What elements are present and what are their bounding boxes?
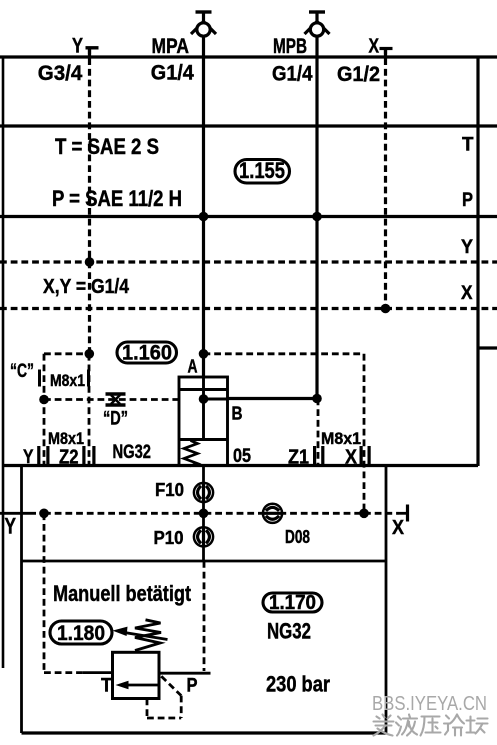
gauge F10 bbox=[194, 483, 213, 502]
node inside valve bbox=[199, 394, 209, 404]
leader arrow to 1.180 bbox=[120, 632, 168, 640]
svg-text:“C”: “C” bbox=[10, 361, 34, 382]
wire: short right stub bbox=[478, 346, 497, 349]
wire: block2 left edge bbox=[20, 466, 23, 734]
plug symbol D bbox=[106, 394, 126, 405]
port mark C bar left bbox=[38, 370, 41, 387]
svg-text:BBS.IYEYA.CN: BBS.IYEYA.CN bbox=[372, 692, 487, 715]
svg-text:G1/2: G1/2 bbox=[337, 63, 380, 86]
oval 1.180 bbox=[50, 621, 112, 644]
wire: dashed pilot D line y399.5 bbox=[44, 398, 179, 401]
wire: dashed pilot y354 C-box top bbox=[44, 352, 90, 355]
wire: pilot dashed to X port bbox=[364, 512, 399, 515]
arrow inside valve bbox=[126, 684, 159, 687]
svg-text:M8x1: M8x1 bbox=[321, 430, 361, 448]
char ai bbox=[374, 715, 394, 736]
svg-text:Y: Y bbox=[23, 446, 34, 468]
port X mid t-bar bbox=[406, 505, 409, 522]
svg-text:X: X bbox=[392, 517, 405, 539]
wire: dashed pilot from MPA to corner bbox=[204, 352, 365, 355]
node MPA-P rail bbox=[199, 212, 209, 222]
label ovals bbox=[50, 160, 322, 645]
cartridge valve 1.160 bbox=[179, 377, 228, 466]
wire: P port line bbox=[159, 672, 211, 675]
wire: block2 right edge bbox=[385, 466, 388, 734]
oval 1.160 bbox=[117, 342, 177, 363]
node MPA pilot branch bbox=[199, 349, 209, 359]
spring of relief valve bbox=[135, 620, 161, 651]
char tan bbox=[467, 717, 488, 734]
svg-text:1.180: 1.180 bbox=[57, 622, 105, 645]
svg-text:P: P bbox=[462, 190, 473, 211]
node Y mid port bbox=[39, 509, 49, 519]
wire: X pilot dashed vertical bbox=[384, 48, 387, 309]
svg-text:Z2: Z2 bbox=[59, 447, 79, 469]
wire: dashed vertical x364 down to X pilot bbox=[363, 354, 366, 514]
oval 1.155 bbox=[235, 160, 290, 184]
svg-text:1.170: 1.170 bbox=[269, 592, 316, 614]
wire: bottom edge bbox=[22, 731, 387, 734]
node B junction bbox=[312, 394, 322, 404]
svg-text:X: X bbox=[345, 447, 358, 469]
char lun bbox=[444, 715, 464, 736]
pilot network C/D bbox=[44, 354, 364, 514]
svg-text:05: 05 bbox=[233, 445, 251, 467]
node P10 branch bbox=[199, 509, 209, 519]
svg-text:M8x1: M8x1 bbox=[50, 371, 85, 390]
wire: MPA vertical line bbox=[202, 12, 205, 377]
svg-text:NG32: NG32 bbox=[267, 619, 311, 644]
wire: divider line bbox=[22, 560, 387, 563]
svg-text:NG32: NG32 bbox=[113, 441, 152, 463]
char ye bbox=[396, 715, 417, 736]
bottom edge port bars Y Z2 Z1 X bbox=[37, 446, 371, 465]
wire: T port line bbox=[83, 671, 113, 674]
wire: dashed x44 down to manual box bbox=[43, 513, 46, 672]
svg-text:M8x1: M8x1 bbox=[48, 430, 84, 448]
middle block outline bbox=[0, 466, 408, 734]
wire: dashed vertical x89 Z2 line bbox=[88, 354, 91, 465]
svg-text:X: X bbox=[369, 36, 380, 58]
svg-text:P10: P10 bbox=[154, 528, 184, 548]
svg-text:230 bar: 230 bar bbox=[266, 672, 330, 697]
wire: main block bottom edge bbox=[3, 464, 478, 467]
svg-text:P: P bbox=[187, 676, 198, 697]
port Y top t-bar bbox=[86, 46, 99, 49]
wire: right border vertical of main block bbox=[476, 57, 479, 466]
svg-text:B: B bbox=[232, 404, 243, 424]
svg-text:1.160: 1.160 bbox=[122, 342, 172, 365]
wire: MPB vertical line bbox=[315, 12, 318, 399]
wire: pilot dashed y513 bbox=[44, 512, 364, 515]
svg-text:D08: D08 bbox=[285, 527, 310, 547]
wire: solid rail P bbox=[0, 215, 497, 218]
orifice D08 bbox=[263, 504, 282, 523]
svg-text:MPB: MPB bbox=[273, 35, 307, 58]
svg-text:Y: Y bbox=[461, 237, 473, 258]
port X top t-bar bbox=[380, 47, 393, 50]
relief valve 1.170/1.180 bbox=[44, 513, 211, 718]
node X mid branch bbox=[359, 509, 369, 519]
wire: top solid rail T bbox=[0, 55, 497, 58]
svg-text:Y: Y bbox=[72, 35, 83, 58]
svg-text:P = SAE 11/2 H: P = SAE 11/2 H bbox=[52, 186, 182, 211]
test point MPA bbox=[191, 12, 216, 36]
gauge P10 bbox=[194, 527, 213, 546]
svg-text:1.155: 1.155 bbox=[239, 158, 285, 183]
svg-text:T: T bbox=[101, 676, 112, 697]
svg-text:Z1: Z1 bbox=[288, 447, 309, 469]
svg-text:T = SAE 2 S: T = SAE 2 S bbox=[55, 134, 159, 159]
port Y mid line bbox=[0, 512, 31, 515]
node Y pilot rail bbox=[85, 257, 95, 267]
svg-text:T: T bbox=[462, 135, 474, 156]
svg-text:A: A bbox=[188, 357, 198, 377]
node C-D branch bbox=[39, 395, 49, 405]
svg-text:“D”: “D” bbox=[103, 409, 128, 430]
wire: Y pilot dashed vertical bbox=[88, 48, 91, 354]
wire: dashed P pilot vertical x204 bbox=[203, 561, 206, 671]
port mark C bar right bbox=[87, 370, 90, 387]
test point MPB bbox=[305, 12, 330, 36]
svg-text:Manuell betätigt: Manuell betätigt bbox=[53, 581, 192, 606]
wire: B port line to MPB bbox=[228, 397, 318, 400]
spring of valve 1.160 bbox=[184, 441, 198, 467]
svg-text:F10: F10 bbox=[155, 480, 184, 500]
wire: solid rail under G labels bbox=[0, 124, 497, 127]
wire: P10 line vertical bbox=[202, 466, 205, 562]
drain dashed path bbox=[161, 676, 181, 695]
svg-text:Y: Y bbox=[5, 514, 17, 539]
node MPB-P rail bbox=[312, 212, 322, 222]
watermark chinese glyph strokes bbox=[374, 715, 488, 736]
node X pilot rail bbox=[381, 304, 391, 314]
valve body square bbox=[113, 652, 160, 698]
wire: dashed manual pilot to valve bbox=[44, 671, 83, 674]
char ya bbox=[421, 717, 441, 736]
svg-text:X: X bbox=[461, 283, 473, 304]
wire: dashed pilot rail X bbox=[0, 307, 497, 310]
svg-text:G3/4: G3/4 bbox=[38, 62, 83, 85]
oval 1.170 bbox=[263, 593, 322, 612]
wire: left border vertical bbox=[2, 57, 5, 668]
wire: dashed vertical x44 C line bbox=[43, 354, 46, 465]
node Y line C-box bbox=[85, 349, 95, 359]
svg-text:G1/4: G1/4 bbox=[151, 62, 194, 85]
wire: dashed pilot rail Y bbox=[0, 260, 497, 263]
svg-text:G1/4: G1/4 bbox=[272, 63, 313, 86]
svg-text:MPA: MPA bbox=[152, 35, 190, 58]
svg-text:X,Y = G1/4: X,Y = G1/4 bbox=[43, 276, 130, 298]
wire: dashed vertical x318 Z1 line bbox=[317, 399, 320, 466]
